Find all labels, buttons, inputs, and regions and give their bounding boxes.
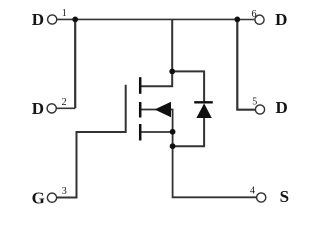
svg-text:4: 4: [250, 185, 255, 196]
svg-text:6: 6: [252, 9, 257, 20]
svg-text:D: D: [275, 98, 287, 117]
svg-text:D: D: [32, 99, 44, 118]
svg-text:3: 3: [62, 186, 67, 197]
svg-text:1: 1: [62, 8, 67, 19]
svg-text:S: S: [280, 187, 289, 206]
svg-text:D: D: [275, 10, 287, 29]
svg-text:G: G: [32, 188, 45, 207]
svg-text:2: 2: [62, 97, 67, 108]
svg-text:D: D: [32, 10, 44, 29]
svg-text:5: 5: [252, 96, 257, 107]
